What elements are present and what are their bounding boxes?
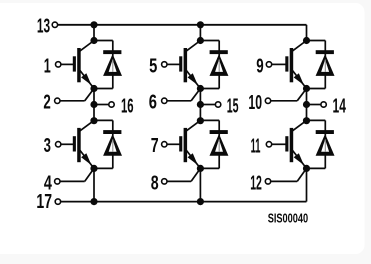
svg-text:2: 2 [43, 92, 50, 114]
svg-text:14: 14 [333, 96, 347, 118]
svg-text:12: 12 [250, 173, 262, 195]
svg-text:16: 16 [121, 96, 134, 118]
svg-text:10: 10 [248, 92, 262, 114]
svg-text:5: 5 [149, 55, 157, 77]
svg-text:7: 7 [151, 135, 159, 157]
svg-text:6: 6 [149, 92, 157, 114]
svg-text:SIS00040: SIS00040 [268, 211, 309, 225]
svg-text:3: 3 [44, 135, 51, 157]
svg-text:13: 13 [37, 15, 50, 37]
svg-text:15: 15 [227, 96, 239, 118]
svg-text:1: 1 [44, 55, 51, 77]
svg-text:9: 9 [256, 55, 263, 77]
svg-text:11: 11 [251, 136, 261, 158]
svg-text:8: 8 [151, 172, 159, 194]
svg-text:17: 17 [36, 191, 52, 213]
